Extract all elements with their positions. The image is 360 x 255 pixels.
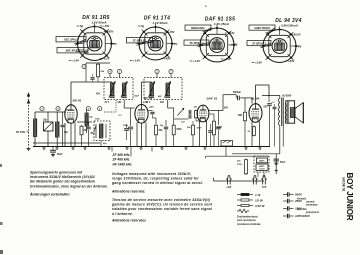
svg-text:50p: 50p	[66, 110, 70, 112]
svg-text:Drahtwiderstand: Drahtwiderstand	[237, 215, 258, 219]
tuning trimmer C1	[44, 122, 54, 131]
svg-text:Alterations reserved.: Alterations reserved.	[111, 190, 145, 194]
tube socket DL 94 3V4	[247, 18, 302, 65]
svg-text:500k: 500k	[177, 129, 183, 131]
svg-text:+1,4V: +1,4V	[72, 59, 79, 63]
antenna coil L1	[34, 119, 37, 137]
B+ drops from transformer	[267, 110, 269, 147]
antenna ground	[28, 147, 30, 149]
svg-text:+2,8V: +2,8V	[255, 61, 262, 65]
svg-text:30p: 30p	[89, 117, 93, 119]
pin 4	[108, 69, 112, 73]
svg-text:die Meßwerte gelten bei abgest: die Meßwerte gelten bei abgestimmtem	[30, 180, 95, 184]
svg-text:+85V: +85V	[107, 30, 114, 34]
svg-text:+80,5V: +80,5V	[292, 33, 301, 37]
svg-text:BF 15/N: BF 15/N	[16, 131, 25, 134]
anode load R5	[213, 120, 215, 121]
svg-text:OSZ: OSZ	[95, 119, 100, 121]
svg-text:2M: 2M	[83, 130, 87, 132]
svg-text:462: 462	[117, 101, 123, 104]
svg-text:5000pF: 5000pF	[233, 92, 242, 94]
oscillator coil box	[94, 121, 110, 141]
svg-text:6g: 6g	[80, 24, 83, 28]
grid resistor R1	[81, 125, 83, 126]
screen feed	[255, 85, 257, 104]
svg-text:ZF 2: ZF 2	[145, 102, 151, 104]
pin 7	[169, 69, 173, 73]
pin 6	[56, 107, 60, 111]
ground	[161, 147, 163, 149]
svg-text:céramique: céramique	[306, 205, 318, 207]
svg-text:gamme de mesure 10V(CC). Un te: gamme de mesure 10V(CC). Un tension de s…	[111, 203, 213, 207]
svg-text:30pF: 30pF	[197, 128, 203, 130]
svg-text:30p: 30p	[160, 125, 164, 127]
svg-text:DK 91: DK 91	[73, 99, 82, 103]
pin 1	[98, 107, 102, 111]
svg-text:ZF 468 kHz: ZF 468 kHz	[112, 153, 130, 157]
ground	[126, 147, 128, 149]
dropper resistor	[245, 159, 247, 160]
svg-text:DAF 91: DAF 91	[207, 97, 218, 101]
ground	[56, 147, 58, 149]
svg-text:10M: 10M	[238, 115, 243, 117]
af cap path	[174, 109, 190, 111]
pin 2	[86, 107, 90, 111]
output transformer T1	[278, 96, 292, 126]
pin 1	[117, 69, 121, 73]
screen resistor R3	[155, 124, 157, 125]
mixer tube V1 DK91	[65, 105, 77, 123]
ground bus	[33, 146, 270, 148]
ground	[43, 147, 45, 149]
svg-text:ceramic: ceramic	[306, 202, 315, 204]
svg-text:1nF: 1nF	[181, 122, 186, 124]
agc cap	[164, 126, 168, 128]
pin 3	[82, 64, 86, 68]
ground	[84, 147, 86, 149]
audio coupling cap	[174, 118, 189, 120]
svg-text:50uF: 50uF	[280, 162, 286, 164]
svg-text:50pF: 50pF	[134, 96, 140, 98]
anode top wire	[262, 94, 280, 96]
svg-text:1,4V 50mA: 1,4V 50mA	[152, 21, 167, 25]
grid series resistor	[191, 116, 196, 118]
screen feed RC cluster	[86, 62, 110, 64]
svg-text:50u: 50u	[237, 161, 241, 163]
cathode cap	[208, 130, 212, 132]
svg-text:à l'antenne.: à l'antenne.	[112, 212, 133, 216]
svg-text:50uF: 50uF	[57, 153, 63, 156]
svg-text:Styroflex: Styroflex	[297, 208, 308, 211]
svg-text:Keramik: Keramik	[297, 199, 307, 201]
plug switch	[227, 178, 229, 185]
volume control R4	[173, 124, 175, 125]
supply line	[206, 155, 269, 157]
svg-text:500V: 500V	[295, 193, 303, 197]
svg-text:462: 462	[159, 101, 165, 104]
coupling to V2	[123, 100, 125, 108]
tone cap	[268, 95, 270, 102]
anode to coupling cap	[209, 110, 223, 112]
svg-text:ANT. SPULE: ANT. SPULE	[65, 49, 80, 53]
svg-text:0V: 0V	[298, 45, 301, 49]
screen bypass	[148, 110, 153, 112]
svg-text:0V: 0V	[114, 42, 117, 46]
svg-text:Voltages measured with instrum: Voltages measured with instrument 333Ω/V…	[112, 172, 191, 176]
svg-text:gang condenser turned in witho: gang condenser turned in without signal …	[111, 181, 203, 185]
svg-text:85V: 85V	[224, 108, 229, 110]
svg-text:range 10V/black, dc, respectin: range 10V/black, dc, respecting values v…	[112, 177, 199, 181]
osc section coil L2	[56, 122, 60, 137]
phone jack row	[214, 180, 265, 182]
svg-text:BATT.: BATT.	[259, 165, 265, 168]
svg-text:Altérations réservées: Altérations réservées	[111, 219, 146, 223]
svg-text:1/10 W: 1/10 W	[255, 204, 266, 208]
svg-text:OSZ. SPULE: OSZ. SPULE	[64, 38, 79, 42]
extra grid cap	[124, 128, 129, 130]
anode wire to IF2	[141, 82, 143, 104]
svg-text:0V: 0V	[234, 43, 237, 47]
ground	[72, 147, 74, 149]
AF tube V3 DAF91	[197, 105, 209, 122]
svg-text:résistance bobinée: résistance bobinée	[237, 222, 261, 226]
svg-text:83V: 83V	[264, 107, 269, 109]
ground	[185, 147, 187, 149]
loudspeaker LS	[286, 101, 304, 123]
svg-text:mit DK 91: mit DK 91	[342, 177, 346, 192]
tube socket DAF 91 1S5	[184, 17, 237, 64]
svg-text:25k: 25k	[100, 71, 105, 73]
tube socket DF 91 1T4	[127, 16, 178, 63]
svg-text:HF 1468 kHz: HF 1468 kHz	[113, 162, 133, 166]
output tube V4 DL94	[249, 104, 262, 123]
on-off switch on bus	[221, 141, 233, 147]
ground	[245, 147, 247, 149]
IF transformer 2	[144, 78, 182, 105]
plug switch	[253, 178, 255, 185]
svg-text:100p: 100p	[123, 125, 129, 127]
electrolytic 50uF	[52, 147, 54, 151]
legend resistors	[237, 194, 241, 196]
svg-text:REGELSPG.: REGELSPG.	[191, 26, 205, 30]
IF transformer 1	[104, 78, 134, 105]
scan specks	[0, 164, 2, 167]
osc feedback choke	[85, 113, 88, 126]
svg-text:125V/160V: 125V/160V	[295, 214, 311, 218]
svg-text:+84V: +84V	[288, 59, 295, 63]
svg-text:+45V: +45V	[168, 30, 175, 34]
screen drop	[217, 110, 219, 125]
svg-text:ZF. SPULE 2: ZF. SPULE 2	[251, 41, 266, 45]
svg-text:1,4V 25mA: 1,4V 25mA	[214, 22, 229, 26]
svg-text:BATT.: BATT.	[259, 160, 265, 163]
svg-text:ZF 468 kHz: ZF 468 kHz	[112, 158, 130, 162]
ground	[140, 147, 142, 149]
svg-text:ZF 1: ZF 1	[104, 102, 110, 104]
hum cap	[273, 106, 277, 108]
det load resistor	[192, 124, 194, 125]
svg-text:170k: 170k	[237, 164, 243, 166]
svg-text:2,8V/100mA: 2,8V/100mA	[280, 23, 298, 27]
svg-text:valables pour condensateur v: valables pour condensateur variable ferm…	[112, 207, 212, 211]
svg-text:Spannungswerte gemessen mit: Spannungswerte gemessen mit	[30, 171, 83, 175]
svg-text:+85V: +85V	[164, 57, 171, 61]
svg-text:Änderungen vorbehalten: Änderungen vorbehalten	[29, 193, 70, 197]
svg-text:1/2 W: 1/2 W	[255, 199, 264, 203]
svg-text:+1,4V: +1,4V	[193, 59, 200, 63]
tube socket DK 91 1R5	[56, 15, 117, 63]
svg-text:Tension de service mesurée ave: Tension de service mesurée avec voltmètr…	[112, 198, 211, 202]
svg-text:LSP: LSP	[227, 187, 232, 189]
svg-text:25p: 25p	[42, 120, 48, 122]
legend capacitors	[283, 194, 288, 196]
svg-text:TVP: TVP	[262, 187, 267, 189]
svg-text:+45V: +45V	[103, 24, 110, 28]
IF alignment ticks	[111, 147, 113, 152]
svg-text:Drehkondensator, ohne Signal a: Drehkondensator, ohne Signal an der Ante…	[30, 184, 108, 188]
svg-text:Instrument 333Ω/V Meßbereich: Instrument 333Ω/V Meßbereich (10V)Gl.	[30, 175, 96, 179]
pin 2	[155, 69, 159, 73]
anode wire to IF1	[70, 82, 72, 105]
svg-text:+85V: +85V	[224, 57, 231, 61]
svg-text:1,4V 50mA: 1,4V 50mA	[91, 20, 106, 24]
pin 7	[40, 107, 44, 111]
svg-text:wire resistance: wire resistance	[237, 218, 256, 222]
IF amp tube V2 DF91	[135, 105, 148, 124]
ground	[259, 147, 261, 149]
output electrolytic	[273, 158, 279, 160]
svg-text:0g: 0g	[141, 24, 144, 28]
ground	[204, 147, 206, 149]
svg-text:67,5V: 67,5V	[259, 169, 265, 171]
svg-text:-0,2V: -0,2V	[103, 57, 110, 61]
svg-text:45V: 45V	[95, 93, 101, 96]
padder cap C2	[61, 124, 65, 126]
svg-text:+14V: +14V	[149, 106, 155, 109]
svg-text:AU 5008: AU 5008	[281, 96, 292, 98]
svg-text:0V: 0V	[174, 42, 177, 46]
plug switch	[262, 178, 264, 185]
ground	[108, 147, 110, 149]
cathode resistor	[253, 126, 255, 127]
agc dashed line	[115, 100, 117, 112]
ferrite antenna	[28, 93, 30, 147]
svg-text:+1,4V: +1,4V	[133, 59, 140, 63]
svg-text:AUSG.TRAFO: AUSG.TRAFO	[253, 26, 270, 30]
bypass cap C3	[86, 126, 90, 128]
grid resistor R7	[244, 111, 246, 112]
svg-text:1M: 1M	[194, 107, 197, 109]
grid cap C5	[128, 126, 133, 128]
svg-text:+14V: +14V	[228, 31, 235, 35]
battery box	[254, 156, 269, 172]
detector diode line	[167, 100, 169, 108]
